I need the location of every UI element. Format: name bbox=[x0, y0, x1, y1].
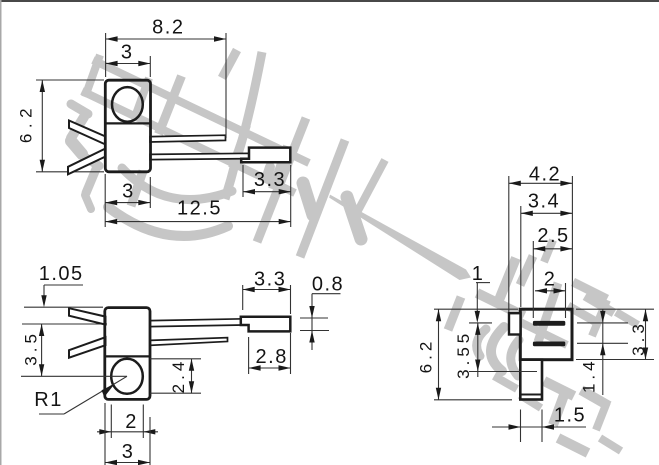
watermark yi bar k bbox=[616, 312, 638, 325]
figC 1 leader vertical bbox=[476, 283, 478, 311]
figC arrow 1.4 up bbox=[600, 343, 605, 355]
figC arrow 2.5 left bbox=[533, 246, 545, 251]
figB dim line 2.8 bbox=[249, 367, 291, 369]
watermark arc lower bbox=[108, 207, 228, 236]
figB lens circle bbox=[111, 359, 143, 394]
figC arrow 4.2 left bbox=[509, 181, 521, 186]
figB arrow 3.3 right bbox=[279, 287, 291, 292]
figC arrow 3.55 down bbox=[475, 360, 480, 372]
svg-text:3: 3 bbox=[122, 441, 135, 463]
figB 1.05 underline bbox=[44, 284, 83, 286]
figB ext line 3 right bbox=[149, 417, 151, 465]
figA arrow 8.2 right bbox=[214, 36, 226, 41]
watermark arc upper bbox=[122, 168, 232, 200]
watermark yi bar mid bbox=[520, 322, 567, 345]
svg-text:1: 1 bbox=[472, 263, 485, 285]
figB dim line 2.4 bbox=[191, 359, 193, 393]
figC ext top right bbox=[576, 308, 654, 310]
watermark zhou stroke 3 bbox=[300, 140, 345, 257]
figA arrow top3 right bbox=[138, 61, 150, 66]
figA ext line 3.3 left bbox=[242, 165, 244, 197]
figA arrow 3.3 right bbox=[279, 189, 291, 194]
svg-text:1.4: 1.4 bbox=[580, 357, 599, 393]
figC slot 1 bbox=[533, 321, 565, 326]
figB 0.8 tick top bbox=[300, 317, 328, 319]
figC dim line 3.55 bbox=[477, 323, 479, 377]
figC arrow 1.5 right bbox=[542, 424, 554, 429]
watermark zhou stroke 1 bbox=[225, 52, 262, 199]
watermark squiggle a bbox=[71, 104, 88, 114]
figB body bbox=[105, 308, 150, 400]
figB ext line 3.3 right bbox=[290, 285, 292, 314]
watermark yi steep m bbox=[553, 395, 564, 425]
watermark yi bar n bbox=[581, 390, 609, 406]
figA arrow 12.5 right bbox=[279, 219, 291, 224]
figA dim line 3.3 bbox=[243, 191, 291, 193]
figB ext line 2 right bbox=[142, 405, 144, 439]
figB lead tab bbox=[241, 317, 290, 332]
watermark zhou stroke 4 bbox=[353, 160, 385, 220]
figB dim line 3.5 bbox=[41, 324, 43, 376]
figA arrow 6.2 bottom bbox=[40, 160, 45, 172]
figC ext 4.2 left bbox=[508, 176, 510, 312]
watermark yi crescent 0 bbox=[477, 329, 486, 356]
watermark squiggle f bbox=[85, 195, 91, 209]
figA body bbox=[105, 80, 150, 172]
figC dim line 3.4 bbox=[521, 212, 573, 214]
figA arrow 6.2 top bbox=[40, 80, 45, 92]
watermark zigzag stroke bbox=[131, 171, 143, 206]
figB arrow 2.4 down bbox=[189, 381, 194, 393]
figA arrow bottom3 right bbox=[138, 200, 150, 205]
figB ext line 2.8 left bbox=[248, 337, 250, 374]
watermark ladder rung 3 bbox=[159, 76, 182, 134]
figB arrow 2 left bbox=[99, 429, 111, 434]
svg-text:3: 3 bbox=[122, 181, 135, 203]
figC ext 1.5 left bbox=[520, 410, 522, 443]
watermark yi bar q bbox=[494, 376, 517, 389]
frame left border bbox=[0, 0, 2, 465]
figC dim line 4.2 bbox=[509, 182, 573, 184]
figB arrow 2 right bbox=[143, 429, 155, 434]
figA ext line 3.3/12.5 right bbox=[290, 165, 292, 227]
figB body divider bbox=[105, 355, 150, 357]
figA ext line left top bbox=[105, 33, 107, 77]
figB ext line 3 left bbox=[104, 403, 106, 465]
figC ext 4.2 right bbox=[571, 176, 573, 308]
svg-text:4.2: 4.2 bbox=[529, 164, 561, 186]
figC dim line 6.2 bbox=[438, 309, 440, 400]
figB ext line 324 bbox=[22, 323, 107, 325]
figC dim line 2 bbox=[535, 290, 566, 292]
figB dim line 2 bbox=[97, 431, 158, 433]
watermark yi steep a bbox=[499, 258, 516, 300]
watermark yi bar s bbox=[600, 438, 621, 451]
watermark yi bar h bbox=[585, 296, 614, 313]
figB R1 arrowhead bbox=[102, 384, 115, 397]
watermark zhou stroke 2 bbox=[257, 118, 306, 242]
svg-text:3.4: 3.4 bbox=[528, 190, 560, 212]
figC arrow 2 right bbox=[554, 288, 566, 293]
figB dim line 3.3 bbox=[243, 289, 291, 291]
figA arrow 8.2 left bbox=[106, 36, 118, 41]
figA ext line 6.2 top bbox=[36, 79, 104, 81]
watermark yi steep j bbox=[592, 300, 607, 336]
figC slot 2 bbox=[533, 342, 565, 347]
watermark yi bar g bbox=[573, 282, 607, 299]
figC ext 2.5 left bbox=[532, 241, 534, 318]
figC ext 309 left bbox=[434, 308, 518, 310]
figB dim line 3 bbox=[105, 462, 150, 464]
figB right lead lower bbox=[150, 338, 228, 346]
watermark squiggle e bbox=[86, 169, 96, 193]
figC ext 343 right bbox=[577, 342, 628, 344]
figA dim line 8.2 bbox=[106, 38, 226, 40]
figC ext 2 right bbox=[565, 283, 567, 318]
svg-text:3: 3 bbox=[121, 42, 134, 64]
figC 1 underline bbox=[476, 282, 490, 284]
watermark yi crescent 2 bbox=[511, 340, 519, 376]
figB arrow 3 right bbox=[138, 460, 150, 465]
figC ext 1.5 right bbox=[541, 410, 543, 443]
figC arrow 3.4 left bbox=[521, 211, 533, 216]
figA body divider bbox=[105, 122, 150, 124]
figC arrow 2 left bbox=[535, 288, 547, 293]
svg-text:6.2: 6.2 bbox=[16, 103, 35, 143]
figB arrow 2.4 up bbox=[189, 359, 194, 371]
figB right lead upper bbox=[150, 319, 250, 327]
watermark ladder rung 5 bbox=[272, 146, 287, 189]
watermark yi bar l bbox=[544, 381, 574, 396]
watermark yi bar c bbox=[477, 293, 524, 316]
figB ext line 2.4 bottom bbox=[150, 392, 201, 394]
figA right lead lower bbox=[150, 153, 250, 159]
watermark dash stroke bbox=[329, 195, 471, 280]
figC arrow 1.4 down bbox=[600, 311, 605, 323]
svg-text:2: 2 bbox=[544, 269, 557, 291]
figC arrow 2.5 right bbox=[560, 246, 572, 251]
figC dim line 3.3 bbox=[645, 309, 647, 359]
figC arrow 1.5 left bbox=[509, 424, 521, 429]
figA arrow 3.3 left bbox=[243, 189, 255, 194]
figA dim line 6.2 bbox=[41, 80, 43, 172]
figB left lead upper bbox=[69, 308, 106, 324]
svg-text:3.55: 3.55 bbox=[454, 330, 473, 379]
svg-text:3.5: 3.5 bbox=[22, 330, 41, 366]
svg-text:12.5: 12.5 bbox=[177, 198, 222, 220]
watermark bbox=[71, 50, 638, 453]
figA dim line 12.5 bbox=[105, 221, 291, 223]
figC ext 3.4 left bbox=[520, 206, 522, 307]
figB arrow 0.8 up bbox=[309, 331, 314, 343]
figB left lead lower bbox=[69, 337, 106, 358]
figB arrow 1.05 down bbox=[41, 295, 46, 307]
watermark yi steep f bbox=[538, 283, 558, 342]
svg-text:8.2: 8.2 bbox=[152, 17, 184, 39]
svg-text:1.05: 1.05 bbox=[39, 263, 84, 285]
figB ext line 2.8 right bbox=[290, 333, 292, 374]
figA dim line bottom 3 bbox=[105, 202, 150, 204]
figA arrow top3 left bbox=[106, 61, 118, 66]
watermark ladder rung 1 bbox=[85, 55, 100, 97]
watermark zhou dot 2 bbox=[347, 197, 361, 239]
svg-text:2.4: 2.4 bbox=[169, 358, 188, 394]
figB arrow 0.8 down bbox=[309, 306, 314, 318]
watermark squiggle b bbox=[71, 117, 84, 138]
svg-text:1.5: 1.5 bbox=[554, 404, 586, 426]
figA lead tab bbox=[241, 148, 290, 163]
watermark squiggle d bbox=[83, 156, 99, 166]
watermark ladder rung 4 bbox=[232, 125, 247, 168]
figA lens circle bbox=[112, 87, 143, 122]
svg-text:2.8: 2.8 bbox=[256, 346, 288, 368]
watermark yi bar r bbox=[558, 438, 588, 453]
figC body bbox=[520, 309, 572, 360]
watermark yi bar i bbox=[568, 306, 598, 323]
figB 0.8 tick bottom bbox=[300, 330, 329, 332]
figB 0.8 underline bbox=[312, 293, 341, 295]
svg-text:R1: R1 bbox=[34, 389, 63, 411]
watermark yi top tick bbox=[544, 240, 553, 262]
figB 1.05 leader vertical bbox=[43, 285, 45, 305]
figC left tab bbox=[509, 313, 521, 334]
watermark yi steep a2 bbox=[448, 297, 461, 330]
watermark zhou dot 1 bbox=[303, 183, 313, 215]
figA ext line 6.2 bottom bbox=[36, 171, 104, 173]
figC dim line 1.5 bbox=[492, 426, 586, 428]
figC foot cap line bbox=[520, 394, 542, 396]
svg-text:0.8: 0.8 bbox=[312, 274, 344, 296]
figA ext line bottom3 left bbox=[104, 174, 106, 227]
figC arrow 1 down bbox=[475, 311, 480, 323]
figB 0.8 leader vertical bbox=[311, 294, 313, 350]
watermark yi bar p bbox=[520, 395, 541, 408]
figC dim line 1.4 bbox=[602, 309, 604, 395]
figC dim line 2.5 bbox=[533, 248, 572, 250]
watermark ladder rail 2 bbox=[82, 91, 295, 193]
figB ext line 1.05 top bbox=[24, 306, 103, 308]
figC arrow 6.2 up bbox=[436, 309, 441, 321]
figC ext bottom right bbox=[576, 359, 654, 361]
figC foot bbox=[520, 360, 542, 400]
figC ext 323 left short bbox=[469, 322, 492, 324]
watermark yi steep o bbox=[596, 402, 607, 430]
figC arrow 6.2 down bbox=[436, 388, 441, 400]
figA ext line right of top 3 bbox=[149, 56, 151, 77]
figB ext line 2 left bbox=[110, 405, 112, 439]
svg-text:6.2: 6.2 bbox=[416, 338, 435, 374]
watermark ladder rail 1 bbox=[93, 60, 309, 163]
watermark zhou dot 0 bbox=[222, 50, 237, 78]
figB arrow 2.8 right bbox=[279, 365, 291, 370]
svg-text:3.3: 3.3 bbox=[254, 269, 286, 291]
watermark ladder rung 2 bbox=[135, 78, 149, 117]
figC ext 6.2 bottom bbox=[434, 399, 512, 401]
figC arrow 3.4 right bbox=[560, 211, 572, 216]
svg-text:2.5: 2.5 bbox=[537, 225, 569, 247]
watermark squiggle c bbox=[71, 141, 82, 154]
figC arrow 3.55 up bbox=[475, 323, 480, 335]
figA right lead upper bbox=[150, 135, 226, 142]
figA left lead upper bbox=[69, 121, 106, 145]
figA left lead lower bbox=[68, 149, 106, 175]
figB ext line 2.4 top bbox=[150, 358, 201, 360]
figC arrow 3.3 up bbox=[643, 309, 648, 321]
figA ext line bottom3 right bbox=[149, 177, 151, 208]
figB arrow 3.5 up bbox=[39, 324, 44, 336]
watermark yi crescent 1 bbox=[491, 327, 504, 371]
svg-text:3.3: 3.3 bbox=[254, 169, 286, 191]
figB arrow 3.3 left bbox=[243, 287, 255, 292]
svg-text:3.3: 3.3 bbox=[629, 320, 648, 356]
figB arrow 3 left bbox=[105, 460, 117, 465]
figB arrow 3.5 down bbox=[39, 364, 44, 376]
figC ext 323 right bbox=[577, 322, 628, 324]
figB R1 underline bbox=[39, 413, 64, 415]
figA arrow 12.5 left bbox=[105, 219, 117, 224]
figC arrow 4.2 right bbox=[560, 181, 572, 186]
frame top border bbox=[0, 0, 659, 2]
figB ext line circle centre bbox=[21, 375, 127, 377]
figA ext line right of 8.2 bbox=[225, 33, 227, 138]
figC ext 371 bbox=[469, 371, 537, 373]
figA dim line top 3 bbox=[106, 63, 151, 65]
watermark small drop bbox=[267, 167, 271, 178]
figC arrow 3.3 down bbox=[643, 348, 648, 360]
svg-text:2: 2 bbox=[125, 411, 138, 433]
figA arrow bottom3 left bbox=[105, 200, 117, 205]
figB ext line 3.3 left bbox=[242, 285, 244, 310]
figB arrow 2.8 left bbox=[249, 365, 261, 370]
watermark yi steep b bbox=[520, 256, 533, 285]
figB R1 leader bbox=[64, 376, 127, 414]
